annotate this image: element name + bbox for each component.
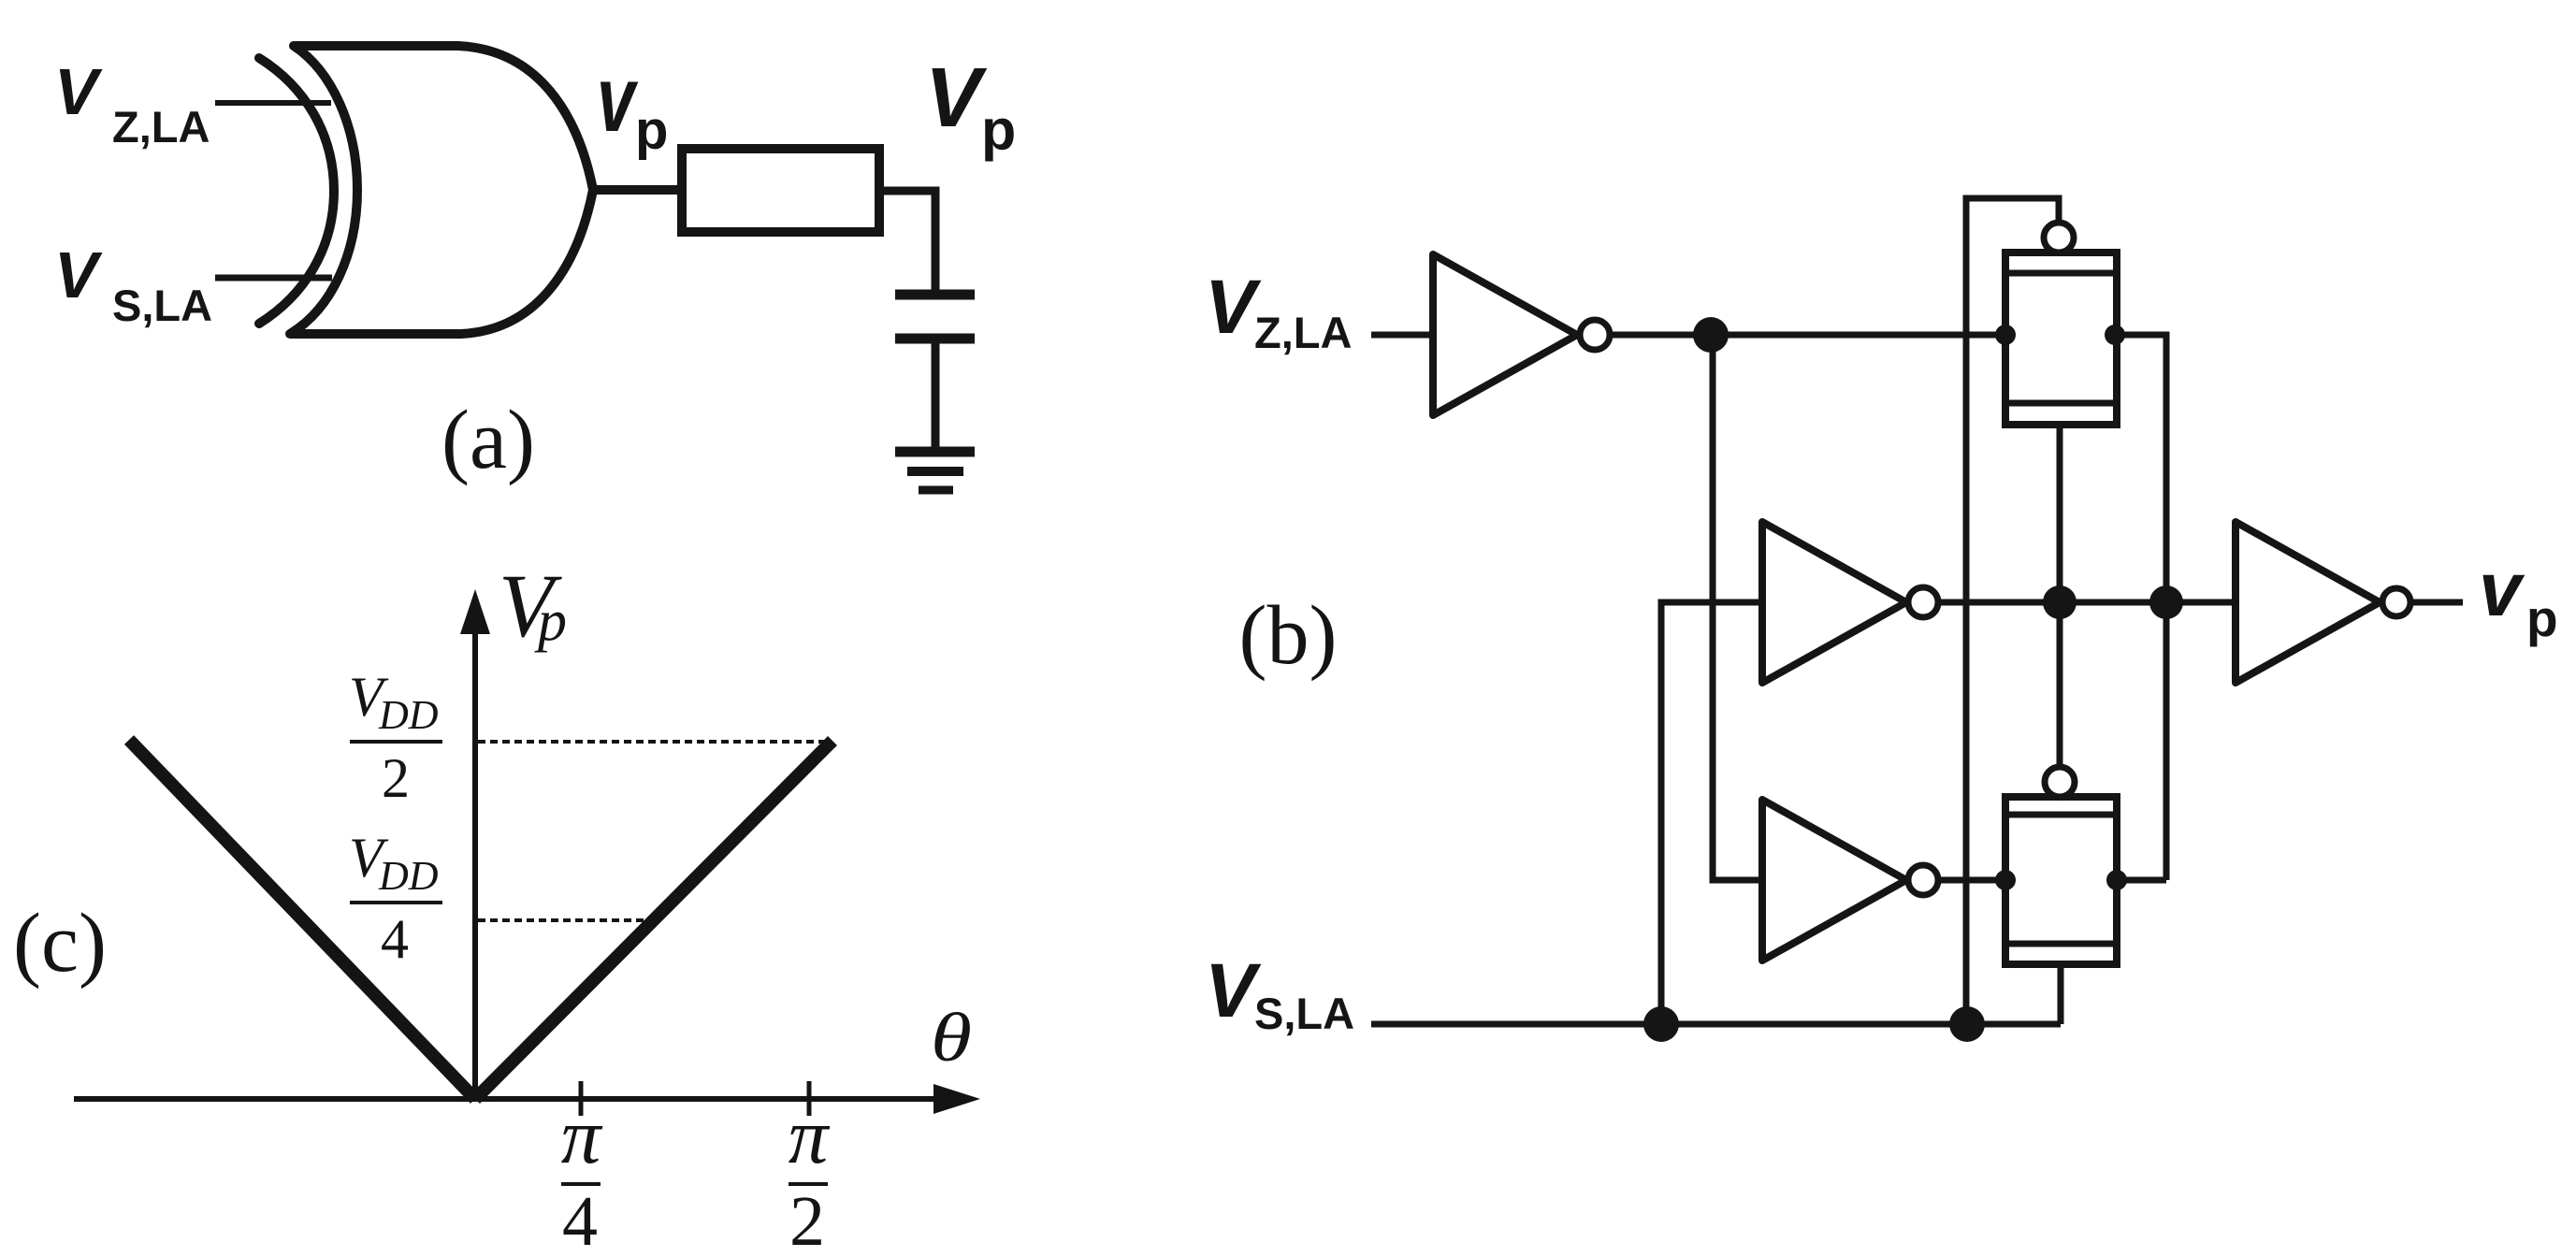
transmission gate TG2 (2005, 767, 2117, 964)
svg-text:V: V (1205, 948, 1262, 1033)
svg-text:DD: DD (378, 692, 439, 738)
label V_Z,LA (b) (1205, 265, 1352, 357)
node vp label (597, 47, 668, 161)
label V_S,LA (54, 238, 212, 330)
inverter U5 output stage (2236, 522, 2410, 683)
resistor R1 (682, 149, 879, 232)
svg-text:V: V (925, 51, 988, 145)
svg-text:DD: DD (378, 853, 439, 899)
wire V_S,LA riser to U3 input (1661, 602, 1766, 1024)
label Vp on axis (499, 556, 567, 656)
wire U2 output to TG1 (1610, 332, 2005, 339)
TG2 right pin dot (2106, 870, 2127, 890)
wire node A down to U4 input (1713, 335, 1766, 880)
wire input V_S,LA (215, 275, 332, 282)
svg-text:v: v (2479, 547, 2525, 632)
output label vp (2479, 547, 2558, 647)
svg-text:p: p (635, 100, 668, 161)
inverter U4 (1762, 800, 1938, 961)
svg-text:S,LA: S,LA (1254, 989, 1354, 1038)
dashed level VDD/4 (478, 918, 655, 922)
svg-text:Z,LA: Z,LA (112, 102, 210, 152)
wire XOR output to resistor (589, 185, 685, 195)
node Vp label (925, 51, 1016, 162)
axis theta horizontal (74, 1084, 980, 1114)
curve left branch (129, 740, 475, 1099)
capacitor C1 top plate (895, 290, 975, 300)
node A junction dot (1693, 317, 1729, 353)
inverter U2 (1433, 254, 1610, 415)
wire TG1 right to middle node (2115, 335, 2166, 880)
wire U3 output across middle row (1938, 600, 2239, 606)
node E junction dot (1949, 1006, 1985, 1042)
wire TG1 nmos gate down (2057, 425, 2063, 767)
wire TG2 nmos gate down (2058, 964, 2064, 1024)
TG1 left pin dot (1995, 325, 2016, 345)
wire V_S,LA bottom rail (1371, 1021, 2061, 1028)
node B junction dot (2043, 585, 2077, 619)
wire U4 output to TG2 (1938, 877, 2005, 884)
node D junction dot (1643, 1006, 1679, 1042)
transmission gate TG1 (2005, 223, 2117, 425)
svg-text:π: π (789, 1092, 831, 1180)
label VDD/4 fraction (349, 827, 442, 970)
label V_Z,LA (54, 55, 210, 152)
dashed level VDD/2 (478, 740, 831, 744)
wire TG2 right to riser (2117, 877, 2166, 884)
svg-text:p: p (981, 98, 1016, 162)
svg-text:V: V (1205, 265, 1262, 350)
svg-text:S,LA: S,LA (112, 281, 212, 330)
svg-text:2: 2 (382, 747, 410, 809)
label VDD/2 fraction (349, 666, 442, 809)
svg-text:V: V (54, 238, 103, 311)
ground symbol (895, 452, 975, 490)
axis Vp vertical (460, 589, 490, 1099)
TG2 left pin dot (1995, 870, 2016, 890)
tick pi/4 (579, 1081, 584, 1116)
svg-text:θ: θ (931, 1000, 972, 1076)
XOR gate U1 body (290, 46, 593, 334)
label pi/2 (789, 1092, 831, 1257)
wire U5 output stub (2410, 600, 2463, 606)
wire resistor to capacitor (879, 191, 935, 295)
svg-text:(b): (b) (1239, 589, 1338, 682)
label pi/4 (561, 1092, 603, 1257)
wire input V_Z,LA (215, 100, 331, 106)
node C junction dot (2149, 585, 2183, 619)
svg-text:v: v (597, 47, 639, 151)
svg-text:4: 4 (562, 1182, 598, 1257)
svg-text:V: V (54, 55, 103, 128)
wire capacitor to ground (932, 339, 940, 452)
svg-text:π: π (561, 1092, 603, 1180)
XOR gate U1 extra input arc (259, 58, 334, 324)
svg-text:Z,LA: Z,LA (1254, 308, 1352, 357)
svg-text:2: 2 (789, 1182, 825, 1257)
curve right branch (475, 741, 832, 1099)
svg-text:p: p (2526, 589, 2558, 647)
label V_S,LA (b) (1205, 948, 1354, 1038)
svg-text:4: 4 (381, 908, 409, 970)
inverter U3 (1762, 522, 1938, 683)
svg-text:p: p (534, 589, 567, 653)
tick pi/2 (807, 1081, 812, 1116)
svg-text:(c): (c) (13, 897, 107, 990)
capacitor C1 bottom plate (895, 334, 975, 344)
wire TG1 pmos gate run (1966, 198, 2059, 1024)
wire V_Z,LA input (1371, 332, 1437, 339)
TG1 right pin dot (2105, 325, 2125, 345)
svg-text:(a): (a) (441, 394, 535, 486)
